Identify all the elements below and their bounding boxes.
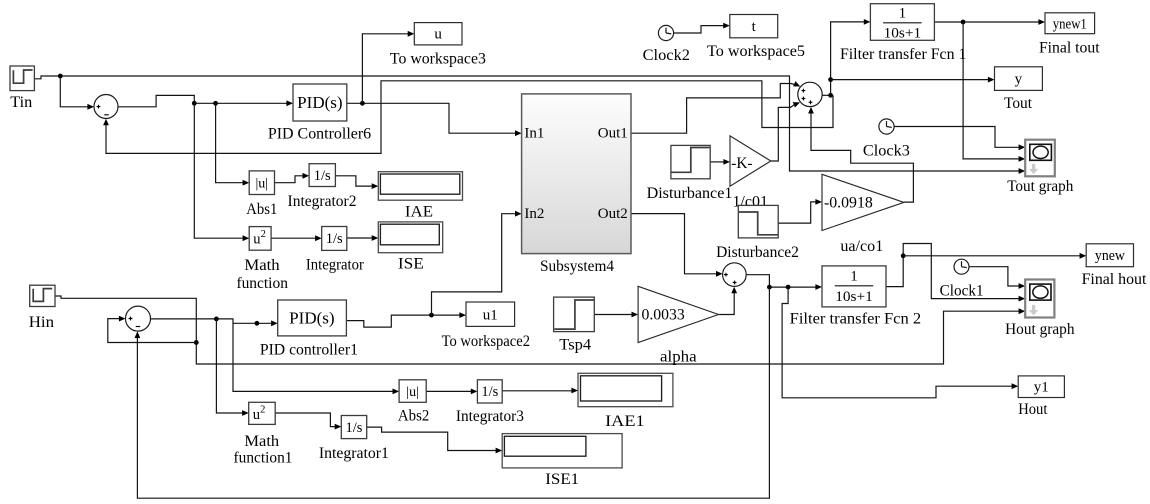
svg-text:Tout graph: Tout graph <box>1007 178 1073 195</box>
summing junction Sum3 <box>126 306 151 331</box>
svg-text:Out2: Out2 <box>598 206 628 222</box>
svg-text:u: u <box>253 407 260 423</box>
block Math function1 u2 <box>249 402 276 424</box>
wire Sum4 output to Filter transfer Fcn 2 input <box>746 275 816 287</box>
svg-text:ISE1: ISE1 <box>545 471 579 488</box>
node B junction on error line <box>192 101 197 106</box>
svg-text:|u|: |u| <box>406 385 419 400</box>
wire Subsystem4 Out1 to Sum2 upper input <box>631 84 796 134</box>
svg-text:-0.0918: -0.0918 <box>824 195 873 212</box>
clock Clock1 <box>954 259 969 274</box>
svg-text:To workspace2: To workspace2 <box>442 333 530 350</box>
step source Disturbance2 <box>738 205 778 238</box>
wire Filter transfer Fcn 2 output to Hout graph input 2 <box>886 244 1020 299</box>
svg-text:1/s: 1/s <box>346 420 363 436</box>
scope Hout graph <box>1025 280 1054 318</box>
clock Clock2 <box>658 25 673 40</box>
wire Sum1 output to PID Controller6 input <box>118 95 288 106</box>
svg-text:PID controller1: PID controller1 <box>260 342 358 359</box>
svg-text:ynew: ynew <box>1095 248 1125 264</box>
wire error1 branch down to Abs2 input <box>233 323 394 391</box>
wire Clock1 to Hout graph input 1 <box>969 267 1020 286</box>
svg-text:function1: function1 <box>234 449 293 466</box>
svg-text:ua/co1: ua/co1 <box>840 238 883 255</box>
svg-text:Subsystem4: Subsystem4 <box>540 258 614 275</box>
block Integrator1 <box>341 416 366 439</box>
svg-text:Integrator2: Integrator2 <box>288 193 357 210</box>
svg-text:1/s: 1/s <box>314 168 331 184</box>
svg-text:y1: y1 <box>1034 380 1049 396</box>
wire node K up to Subsystem4 In2 <box>432 214 517 315</box>
wire Hin output across to Hout graph input 3 <box>55 296 1020 364</box>
to-workspace block ynew <box>1086 244 1133 267</box>
to-workspace block y <box>995 67 1043 91</box>
svg-text:1: 1 <box>850 269 858 285</box>
svg-text:Clock1: Clock1 <box>940 282 984 299</box>
wire Abs1 output to Integrator2 input <box>275 176 304 183</box>
wire node M down to Hout y1 block <box>782 287 1013 398</box>
svg-text:2: 2 <box>261 229 266 240</box>
svg-text:-K-: -K- <box>731 155 752 172</box>
svg-text:Math: Math <box>244 433 279 450</box>
svg-text:1: 1 <box>899 5 907 21</box>
svg-text:Clock2: Clock2 <box>643 47 690 64</box>
wire Tin output to junction A and across top to Tout graph input 3 <box>35 76 1021 171</box>
wire Integrator output to ISE display input <box>347 237 373 239</box>
svg-text:In1: In1 <box>524 126 544 142</box>
node N junction on filtered Hout line <box>901 253 906 258</box>
svg-text:0.0033: 0.0033 <box>642 306 685 323</box>
svg-text:PID(s): PID(s) <box>297 93 342 112</box>
display IAE <box>378 172 462 201</box>
svg-text:Out1: Out1 <box>598 126 628 142</box>
svg-text:Hin: Hin <box>29 314 54 331</box>
gain K (1/c01) <box>730 136 771 186</box>
svg-text:Hout graph: Hout graph <box>1005 321 1074 338</box>
block Filter transfer Fcn 1 <box>870 4 934 42</box>
wire Sum3 output to PID controller1 input <box>151 319 273 323</box>
block Abs1 <box>249 171 274 195</box>
block Integrator3 <box>477 380 502 403</box>
to-workspace block y1 <box>1018 376 1064 398</box>
block Abs2 <box>399 380 426 403</box>
wire node C down to Abs1 input <box>216 103 244 182</box>
summing junction Sum4 <box>723 263 747 287</box>
svg-text:IAE: IAE <box>405 203 433 220</box>
gain alpha (0.0033) <box>638 286 718 342</box>
block Math function u2 <box>249 227 271 251</box>
step source Tsp4 <box>554 297 595 332</box>
svg-text:Integrator1: Integrator1 <box>319 445 389 462</box>
svg-text:Filter transfer Fcn 2: Filter transfer Fcn 2 <box>790 311 922 328</box>
node G junction on filtered Tout line <box>961 20 966 25</box>
wire PID controller1 output to To workspace2 u1 block <box>346 315 460 327</box>
node E junction at Sum2 output <box>828 93 833 98</box>
svg-text:Disturbance2: Disturbance2 <box>716 244 799 261</box>
svg-text:Integrator3: Integrator3 <box>456 408 524 425</box>
wire junction A down into Sum1 + input <box>60 76 88 107</box>
svg-text:IAE1: IAE1 <box>605 413 645 430</box>
wire PID Controller6 output to Subsystem4 In1 <box>347 103 516 133</box>
svg-text:In2: In2 <box>524 206 544 222</box>
wire node F to Tout y block <box>831 79 990 81</box>
node J junction on error1 line <box>255 321 260 326</box>
svg-text:1/s: 1/s <box>481 384 498 400</box>
svg-text:Filter transfer Fcn 1: Filter transfer Fcn 1 <box>840 46 967 63</box>
wire Clock2 to To workspace5 t block <box>674 26 725 33</box>
block PID controller1 <box>278 300 347 336</box>
subsystem block Subsystem4 <box>522 94 631 254</box>
wire node G down to Tout graph input 2 <box>963 22 1020 159</box>
svg-text:Clock3: Clock3 <box>863 142 910 159</box>
svg-text:u: u <box>434 27 442 43</box>
wire Disturbance1 output to gain K input <box>710 161 724 163</box>
svg-text:function: function <box>236 275 288 292</box>
svg-text:Tout: Tout <box>1004 95 1033 112</box>
svg-text:Tsp4: Tsp4 <box>559 337 591 354</box>
wire Filter transfer Fcn 1 output to Final tout ynew1 block <box>934 21 1039 23</box>
svg-text:To workspace3: To workspace3 <box>390 51 486 68</box>
wire Sum2 output stub <box>822 94 833 96</box>
svg-text:2: 2 <box>260 405 265 416</box>
svg-text:To workspace5: To workspace5 <box>707 43 805 60</box>
gain ua/co1 (-0.0918) <box>822 174 904 230</box>
svg-text:alpha: alpha <box>660 348 697 365</box>
svg-text:Abs2: Abs2 <box>398 408 429 425</box>
wire Math function output to Integrator input <box>271 237 316 239</box>
svg-text:ISE: ISE <box>398 256 424 273</box>
svg-text:Final tout: Final tout <box>1039 39 1100 56</box>
wire Subsystem4 Out2 to Sum4 + input <box>631 214 717 274</box>
wire Tsp4 output to gain alpha input <box>594 314 632 316</box>
svg-text:Abs1: Abs1 <box>246 201 277 218</box>
node I junction on error1 line <box>214 317 219 322</box>
display ISE1 <box>502 434 622 468</box>
svg-text:|u|: |u| <box>255 177 268 192</box>
wire Integrator1 output to ISE1 display input <box>367 427 497 450</box>
node M junction at Hout node before filter <box>786 285 791 290</box>
wire node I down to Math function1 u2 input <box>216 319 243 413</box>
wire feedback Tout down-left back to Sum1 minus input <box>106 81 833 154</box>
svg-text:10s+1: 10s+1 <box>835 289 873 305</box>
node A junction on Tin line <box>58 74 63 79</box>
svg-text:ynew1: ynew1 <box>1053 16 1087 32</box>
svg-text:1/s: 1/s <box>326 231 343 247</box>
svg-text:Final hout: Final hout <box>1082 271 1147 288</box>
node H junction on Hin line <box>194 340 199 345</box>
to-workspace block u1 <box>466 302 515 326</box>
svg-text:10s+1: 10s+1 <box>884 25 922 41</box>
to-workspace block ynew1 <box>1045 13 1095 34</box>
block Integrator2 <box>309 164 335 187</box>
wire Abs2 output to Integrator3 input <box>426 390 472 392</box>
step source Tin <box>10 66 34 91</box>
to-workspace block u <box>414 23 462 45</box>
svg-text:Disturbance1: Disturbance1 <box>647 185 733 202</box>
node D junction on PID Controller6 output <box>360 101 365 106</box>
display ISE <box>378 222 442 253</box>
step source Disturbance1 <box>671 145 710 178</box>
svg-text:Math: Math <box>244 257 279 274</box>
wire Integrator2 output to IAE display input <box>335 176 373 186</box>
block Filter transfer Fcn 2 <box>822 266 886 307</box>
wire node D up to To workspace3 u block <box>362 34 409 104</box>
wire gain alpha output up to Sum4 bottom input <box>719 292 735 315</box>
to-workspace block t <box>730 15 778 38</box>
svg-text:PID Controller6: PID Controller6 <box>268 126 371 143</box>
wire Disturbance2 output to gain ua/co1 input <box>778 202 816 223</box>
wire gain ua/co1 output up to Sum2 bottom input <box>811 112 913 202</box>
svg-text:Integrator: Integrator <box>306 257 365 274</box>
clock Clock3 <box>879 119 894 134</box>
svg-text:PID(s): PID(s) <box>289 309 334 328</box>
svg-text:Hout: Hout <box>1018 401 1048 418</box>
display IAE1 <box>578 373 673 406</box>
svg-text:Tin: Tin <box>10 94 32 111</box>
block Integrator <box>322 227 347 251</box>
step source Hin <box>30 285 55 306</box>
summing junction Sum1 <box>94 95 118 119</box>
wire node B down to Math function u2 input <box>194 103 244 238</box>
svg-text:y: y <box>1015 72 1023 88</box>
node F junction on Tout riser <box>828 77 833 82</box>
summing junction Sum2 <box>798 82 822 106</box>
wire Sum2 output up to Filter transfer Fcn 1 input <box>831 22 865 95</box>
wire Math function1 output to Integrator1 input <box>275 413 336 427</box>
wire feedback Hout down and left back to Sum3 minus input <box>137 287 769 498</box>
wire Clock3 to Tout graph input 1 <box>894 127 1020 148</box>
wire Integrator3 output to IAE1 display input <box>502 390 572 392</box>
svg-text:u: u <box>253 232 260 248</box>
wire gain K output to Sum2 lower input <box>771 104 795 161</box>
node C junction on error line <box>213 101 218 106</box>
wire node N to Final hout ynew block <box>903 255 1081 257</box>
svg-text:u1: u1 <box>483 308 498 324</box>
node L junction at Hout node <box>767 285 772 290</box>
scope Tout graph <box>1025 140 1055 177</box>
wire node H loop into Sum3 + input <box>108 319 197 343</box>
block PID Controller6 <box>293 84 347 121</box>
node K junction on u1 line <box>429 313 434 318</box>
